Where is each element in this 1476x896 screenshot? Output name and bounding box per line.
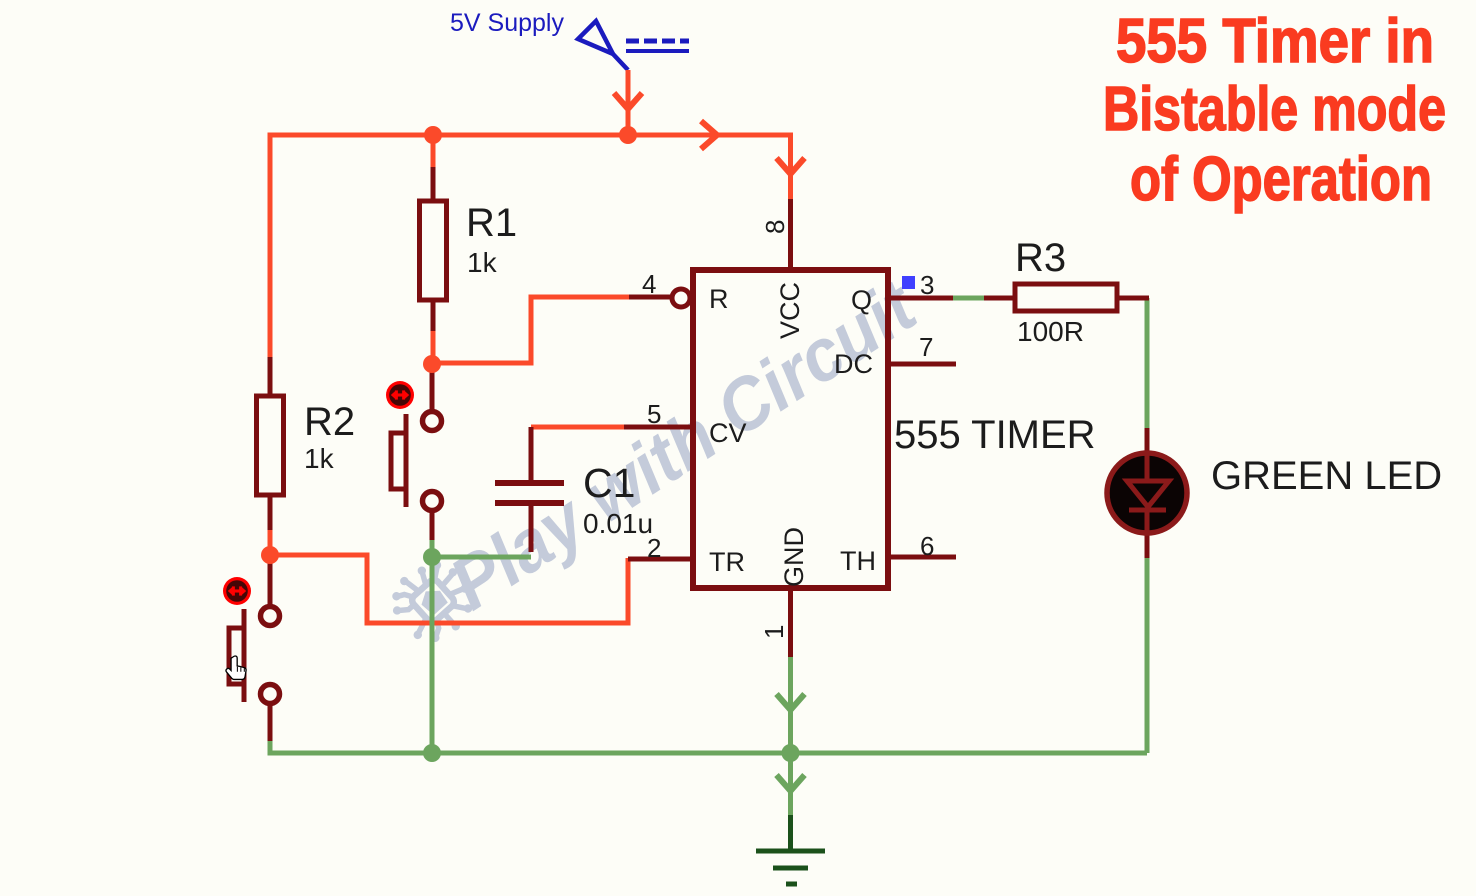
watermark chip logo (379, 547, 487, 655)
pin btn2 top (268, 560, 273, 606)
pin LED bottom (1145, 531, 1150, 558)
green arrow above bottom rail (777, 694, 805, 710)
svg-text:6: 6 (920, 531, 934, 561)
svg-text:5V Supply: 5V Supply (450, 9, 564, 37)
title text (1103, 7, 1446, 214)
pin 5 stub (624, 425, 693, 430)
pin R1 top (431, 167, 436, 201)
svg-text:CV: CV (709, 418, 747, 448)
pushbutton SW1 (391, 412, 442, 511)
IC U1 555 timer body (693, 270, 1096, 588)
svg-text:R1: R1 (466, 201, 517, 245)
pin 7 stub (888, 362, 956, 367)
resistor R2 (257, 396, 356, 495)
pin 3 stub (888, 296, 953, 301)
watermark text Play with Circuit (436, 263, 933, 626)
svg-text:GND: GND (779, 527, 809, 587)
orange arrow on vcc drop (777, 158, 805, 174)
svg-text:5: 5 (647, 399, 661, 429)
orange wires (270, 70, 791, 623)
pin numbers (642, 220, 934, 639)
pin R2 bottom (268, 495, 273, 530)
5V supply symbol (578, 21, 689, 70)
pin btn1 bottom (430, 512, 435, 540)
orange arrow on supply drop (614, 93, 642, 109)
pin C1 bottom lead (529, 503, 534, 552)
wire gnd pin down (788, 657, 793, 815)
svg-text:GREEN LED: GREEN LED (1211, 454, 1442, 498)
svg-text:7: 7 (919, 332, 933, 362)
junction node dots green (423, 548, 800, 762)
wire to R1 top (431, 135, 436, 169)
wire bottom rail (270, 740, 1147, 753)
pin 8 stub (788, 199, 793, 267)
wire to pin5 (531, 425, 625, 430)
pin 1 stub (788, 588, 793, 657)
svg-text:3: 3 (920, 270, 934, 300)
svg-text:TR: TR (709, 547, 745, 577)
pin 6 stub (888, 555, 956, 560)
svg-text:C1: C1 (583, 460, 635, 506)
orange arrow on top rail (701, 121, 717, 149)
wire R1 bottom to node (431, 329, 436, 364)
pushbutton SW1 actuate icon (386, 381, 414, 409)
wire node to pin2 (270, 555, 628, 623)
IC pin labels (709, 282, 876, 587)
svg-text:100R: 100R (1017, 316, 1084, 347)
svg-text:2: 2 (647, 533, 661, 563)
pushbutton SW2 actuate icon (223, 577, 251, 605)
node bottom rail left (423, 744, 441, 762)
node bottom rail gnd (782, 744, 800, 762)
wire Q net highlight (953, 296, 984, 301)
svg-text:TH: TH (840, 546, 876, 576)
svg-text:R3: R3 (1015, 236, 1066, 280)
mouse cursor (226, 656, 246, 679)
svg-text:Q: Q (851, 285, 872, 315)
node C1 bottom (423, 548, 441, 566)
resistor R3 (1015, 236, 1117, 347)
junction node dots orange (261, 126, 637, 564)
pin btn2 bottom (268, 704, 273, 741)
svg-text:0.01u: 0.01u (583, 508, 653, 539)
svg-text:555 Timer in: 555 Timer in (1116, 7, 1434, 76)
pin 4 bubble (672, 289, 690, 307)
pin 2 stub (628, 557, 693, 562)
wire cap node vertical (430, 538, 435, 753)
svg-text:of Operation: of Operation (1130, 145, 1432, 214)
wire supply drop (626, 70, 631, 135)
capacitor C1 (495, 460, 653, 539)
svg-text:1k: 1k (304, 443, 335, 474)
pin 4 stub (629, 295, 672, 300)
pin R1 bottom (431, 300, 436, 331)
wire top rail (270, 135, 791, 359)
LED D1 (1107, 452, 1442, 534)
wire node to pin4 (433, 297, 630, 363)
svg-text:DC: DC (834, 349, 873, 379)
svg-text:Bistable mode: Bistable mode (1103, 75, 1446, 144)
pushbutton SW2 (229, 607, 280, 704)
pin LED top (1145, 428, 1150, 455)
maroon pin stubs (270, 167, 1149, 741)
node 3 marker (902, 276, 915, 289)
wire R2 bottom to node (268, 528, 273, 555)
wire cap node to C1 (432, 555, 531, 560)
svg-text:R: R (709, 284, 729, 314)
wire LED to bottom rail (1145, 557, 1150, 753)
svg-text:1k: 1k (467, 247, 498, 278)
node R2 bottom (261, 546, 279, 564)
resistor R1 (420, 201, 518, 300)
svg-text:1: 1 (759, 625, 789, 639)
svg-text:VCC: VCC (775, 282, 805, 339)
pin C1 top lead (529, 427, 534, 483)
node R1 bottom (423, 355, 441, 373)
ground (756, 815, 825, 884)
wire Q to R3 (984, 296, 1015, 301)
pin btn1 top (430, 371, 435, 410)
svg-text:8: 8 (760, 220, 790, 234)
svg-text:4: 4 (642, 269, 656, 299)
pin R2 top (268, 357, 273, 396)
node supply tee (619, 126, 637, 144)
pin R3 right (1117, 296, 1149, 301)
green wires (270, 298, 1147, 815)
svg-text:R2: R2 (304, 400, 355, 444)
svg-text:555 TIMER: 555 TIMER (894, 413, 1096, 457)
green arrow below bottom rail (777, 775, 805, 791)
node R1 top tee (424, 126, 442, 144)
wire R3 to LED (1145, 298, 1150, 429)
